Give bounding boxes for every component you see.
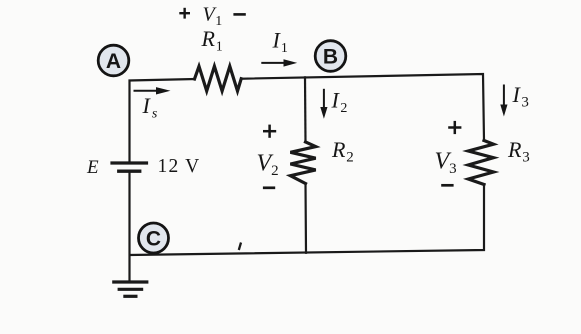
svg-text:C: C: [146, 228, 161, 251]
svg-text:E: E: [86, 157, 99, 178]
svg-text:12 V: 12 V: [158, 156, 201, 177]
svg-text:B: B: [323, 46, 338, 69]
svg-text:A: A: [106, 50, 121, 73]
